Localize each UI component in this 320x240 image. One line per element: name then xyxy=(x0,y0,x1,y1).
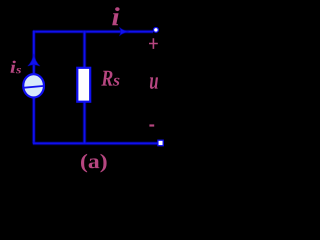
wire: top horizontal rail xyxy=(33,30,153,34)
terminal: top output dot xyxy=(154,28,159,33)
wire: left vertical branch through current source xyxy=(32,31,36,144)
wire: resistor branch vertical xyxy=(83,31,87,144)
wire: bottom horizontal rail xyxy=(33,141,158,145)
label u (terminal voltage) xyxy=(150,77,158,89)
label is (source current) xyxy=(11,61,16,73)
terminal: bottom output square xyxy=(158,140,163,146)
polarity plus xyxy=(149,38,158,49)
label Rs xyxy=(101,71,112,86)
resistor Rs body xyxy=(77,68,90,102)
current source circle body xyxy=(23,74,44,97)
arrowhead: source current up xyxy=(28,54,40,66)
current source chord bar xyxy=(23,86,44,88)
label (a) xyxy=(81,154,107,173)
label i (output current) xyxy=(112,7,119,25)
arrowhead: current i right xyxy=(119,27,128,36)
polarity minus xyxy=(149,124,154,126)
